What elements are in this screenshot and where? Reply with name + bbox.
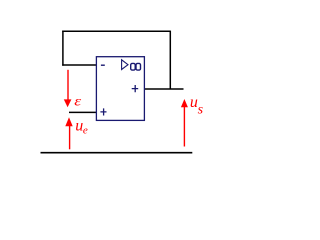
wire: output lead xyxy=(144,88,183,90)
arrow: epsilon differential voltage (down) shaft xyxy=(67,70,69,101)
op-amp U1 output plus label xyxy=(132,85,139,92)
op-amp U1 infinity symbol right ring xyxy=(136,63,141,70)
arrow: u_s output voltage (up) shaft xyxy=(183,105,185,147)
op-amp U1 minus input label xyxy=(101,64,105,66)
wire: inverting (-) input lead xyxy=(62,64,96,66)
svg-text:ε: ε xyxy=(74,94,82,109)
op-amp U1 ideal-gain triangle symbol xyxy=(122,60,128,70)
svg-text:e: e xyxy=(83,124,88,136)
wire: feedback left vertical leg xyxy=(62,31,64,66)
wire: feedback right vertical leg xyxy=(169,31,171,89)
wire: feedback top horizontal xyxy=(62,30,170,32)
arrow: u_e input voltage (up) shaft xyxy=(69,124,71,149)
arrow: epsilon arrowhead xyxy=(64,99,72,107)
wire: ground rail xyxy=(41,152,193,154)
arrow: u_e arrowhead xyxy=(65,117,72,126)
op-amp U1 plus input label xyxy=(100,108,106,115)
svg-text:s: s xyxy=(198,102,204,117)
arrow: u_s arrowhead xyxy=(181,99,188,107)
op-amp U1 infinity symbol left ring xyxy=(131,63,136,70)
op-amp U1 body xyxy=(96,57,144,121)
wire: non-inverting (+) input lead xyxy=(69,111,96,113)
